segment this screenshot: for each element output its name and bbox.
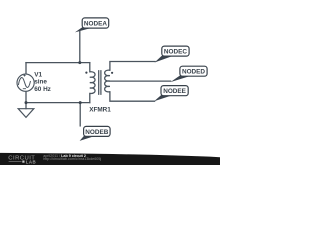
wire NODEB stub [79, 103, 81, 126]
svg-text:NODEC: NODEC [164, 49, 187, 56]
node flag NODEA [75, 18, 109, 33]
wire source bottom to ground [25, 92, 27, 109]
svg-text:LAB: LAB [26, 159, 36, 164]
ground [18, 109, 34, 118]
svg-text:http://circuitlab.com/c/nra13k: http://circuitlab.com/c/nra13kde605j [43, 157, 101, 161]
svg-text:60 Hz: 60 Hz [34, 86, 51, 93]
ground junction [25, 101, 28, 104]
core [99, 70, 101, 95]
node flag NODED [170, 66, 207, 82]
node flag NODEB [80, 126, 111, 140]
wire secondary center tap [110, 80, 171, 82]
wire secondary bottom [110, 92, 155, 101]
primary winding [90, 72, 95, 94]
wire bottom primary [26, 102, 90, 104]
wire NODEA stub [79, 31, 81, 62]
svg-text:NODEB: NODEB [85, 129, 108, 136]
svg-text:XFMR1: XFMR1 [89, 107, 111, 114]
wire secondary top [110, 62, 155, 71]
voltage source V1 [17, 74, 34, 91]
svg-text:sine: sine [34, 78, 47, 85]
secondary winding [105, 70, 110, 92]
logo LAB line [9, 161, 22, 163]
node B junction [79, 101, 82, 104]
node flag NODEC [155, 46, 190, 62]
node flag NODEE [154, 86, 188, 102]
wire source top [25, 63, 27, 75]
wire top primary [26, 62, 90, 64]
svg-text:NODEA: NODEA [84, 21, 107, 28]
node A junction [78, 61, 81, 64]
wire primary bottom stub [89, 93, 91, 102]
watermark banner [0, 153, 220, 165]
transformer XFMR1 [90, 70, 110, 95]
wire primary top stub [89, 63, 91, 72]
label V1 value [34, 72, 51, 94]
svg-text:NODEE: NODEE [163, 88, 186, 95]
primary phase dot [85, 72, 87, 74]
svg-text:NODED: NODED [182, 69, 205, 76]
secondary phase dot [111, 72, 113, 74]
